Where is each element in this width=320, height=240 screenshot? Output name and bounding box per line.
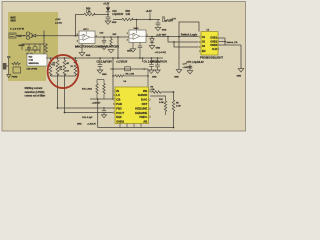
svg-text:SHDN: SHDN [19, 45, 25, 47]
transistor Q1 [26, 32, 32, 39]
bank bottom link [51, 75, 76, 77]
svg-text:1.8k: 1.8k [126, 14, 131, 16]
svg-text:CLK: CLK [212, 48, 217, 51]
annotation note [25, 87, 46, 98]
IC U4 [113, 87, 150, 124]
svg-text:+1.72/3.6V: +1.72/3.6V [116, 62, 128, 64]
wire to gnd [219, 45, 241, 69]
svg-text:1.0M: 1.0M [176, 106, 181, 108]
svg-text:V+ 3.6–5.5V IN: V+ 3.6–5.5V IN [10, 29, 24, 31]
svg-text:CB: CB [116, 98, 120, 102]
pin numbers U47 [77, 29, 97, 42]
wire U46 supply [136, 19, 138, 30]
svg-text:R41 1.0kΩ: R41 1.0kΩ [82, 88, 92, 91]
ground [105, 21, 117, 24]
wire from pin [150, 96, 165, 97]
svg-text:C41: 0.1μF: C41: 0.1μF [82, 116, 93, 119]
resistor R29 (vertical) [49, 57, 52, 76]
svg-text:selection (LPS02): selection (LPS02) [25, 91, 45, 94]
wire [132, 19, 160, 21]
svg-text:1.0μF/16V: 1.0μF/16V [112, 14, 123, 16]
capacitor C75 [187, 62, 205, 74]
svg-text:GND: GND [77, 124, 82, 126]
resistor R30 (vertical) [56, 57, 59, 75]
svg-text:+1.8/3.6V: +1.8/3.6V [92, 102, 101, 104]
diode D2 [106, 7, 110, 14]
wire lower link [90, 80, 114, 100]
svg-text:Switch_Clk: Switch_Clk [227, 41, 239, 44]
wire [94, 14, 108, 16]
capacitor C41 [102, 107, 106, 115]
zener D3 [150, 37, 154, 46]
svg-text:8660: 8660 [11, 21, 17, 23]
schematic frame [2, 2, 246, 132]
ground [155, 27, 167, 31]
svg-text:1: 1 [147, 34, 148, 36]
IC U5 [199, 32, 219, 55]
svg-text:R66: R66 [126, 11, 131, 13]
input filter block (khaki) [8, 12, 58, 81]
svg-text:MAX: MAX [11, 17, 17, 20]
resistor bank labels [52, 61, 72, 72]
wire down left [57, 74, 59, 108]
wire to comparator [44, 35, 79, 37]
ground small [77, 115, 107, 126]
resistor R47 [110, 33, 117, 47]
node VIN [17, 34, 25, 38]
svg-text:+2.5V REF: +2.5V REF [156, 34, 167, 36]
resistor R42 [103, 80, 105, 100]
svg-text:R6: 1.0M: R6: 1.0M [126, 74, 135, 76]
resistor R5 (vertical) [172, 92, 181, 128]
svg-text:OSB1: OSB1 [210, 37, 217, 40]
ground [149, 70, 155, 73]
svg-text:Shifting current: Shifting current [25, 87, 43, 90]
wire [43, 31, 45, 58]
wire [36, 35, 44, 37]
svg-text:GND: GND [102, 74, 107, 76]
mid supply bus [46, 57, 163, 59]
svg-text:EN: EN [202, 50, 206, 53]
op-amp U47 [79, 31, 95, 44]
svg-text:OSB2: OSB2 [210, 40, 217, 43]
node A [43, 35, 45, 37]
svg-text:GND: GND [237, 75, 242, 77]
callout box [27, 54, 47, 66]
page background [0, 0, 250, 133]
wire [8, 61, 10, 74]
highlight ellipse [48, 55, 79, 88]
svg-text:HED1/NE: HED1/NE [135, 106, 147, 110]
label C16 [112, 11, 123, 16]
svg-text:IN: IN [116, 89, 119, 93]
svg-text:+1.8 (+3.3V): +1.8 (+3.3V) [155, 52, 167, 54]
svg-text:PGND: PGND [12, 77, 18, 79]
svg-text:POUT: POUT [116, 111, 124, 115]
transistor Q2 [33, 44, 37, 53]
node REF [151, 36, 153, 38]
svg-text:GND: GND [156, 48, 161, 50]
svg-text:C2: 1.0μF/16V: C2: 1.0μF/16V [97, 62, 113, 64]
supply +3.3V flag [146, 11, 153, 20]
op-amp U46 [129, 30, 146, 43]
capacitor C40 [100, 32, 107, 45]
wire Switch_Clk [219, 38, 226, 45]
ground [97, 70, 107, 76]
svg-text:5: 5 [88, 29, 89, 31]
svg-text:comes out of filter: comes out of filter [25, 95, 46, 98]
svg-text:MBR0520L: MBR0520L [29, 63, 40, 65]
label supply row [183, 64, 192, 69]
wire stage link [95, 36, 129, 38]
wire down right [64, 74, 66, 112]
svg-text:3: 3 [77, 34, 78, 36]
capacitor C4 [149, 57, 154, 70]
svg-text:C39·LPS02: C39·LPS02 [27, 69, 39, 71]
svg-text:R4: R4 [71, 65, 73, 68]
wire op2 output [146, 36, 199, 38]
svg-text:1.0M: 1.0M [159, 102, 164, 104]
svg-text:1.8k: 1.8k [86, 11, 91, 13]
resistor R3 (vertical, khaki right edge) [45, 43, 48, 53]
supply +3.3V [103, 4, 110, 8]
svg-text:5: 5 [138, 28, 139, 30]
wire mesh in block [22, 44, 40, 53]
svg-text:RST: RST [142, 102, 148, 106]
wire to lower cluster [58, 107, 117, 109]
label C1 [162, 17, 173, 22]
svg-text:4k7: 4k7 [66, 62, 69, 65]
capacitor C74 [150, 57, 168, 78]
svg-text:AB: AB [143, 119, 147, 123]
resistor R4 [12, 62, 21, 65]
resistor R68 [84, 13, 95, 16]
capacitor C1 [156, 20, 161, 28]
diode D1 [32, 34, 36, 38]
svg-text:IN1: IN1 [143, 89, 148, 93]
svg-text:GND: GND [162, 30, 167, 32]
ground [7, 75, 18, 79]
svg-text:+1.8/3.3V: +1.8/3.3V [87, 124, 96, 126]
svg-text:GND: GND [152, 77, 157, 79]
top rail left [76, 15, 85, 36]
capacitor C16 [106, 15, 111, 22]
node B [107, 14, 109, 16]
wire to U5 pin2 [167, 36, 198, 42]
svg-text:3: 3 [127, 33, 128, 35]
wire [65, 112, 117, 114]
left edge connector [3, 63, 8, 70]
ground [149, 46, 160, 50]
svg-text:PAD: PAD [116, 102, 122, 106]
resistor R32 (vertical) [74, 57, 77, 76]
resistor R6 (above U4) [112, 74, 149, 77]
svg-text:+3.3V: +3.3V [146, 11, 153, 13]
switch logic boundary wire [179, 22, 196, 70]
IC bottom pin stubs [120, 124, 141, 128]
capacitor C5 [27, 44, 31, 52]
svg-text:GND: GND [112, 22, 117, 24]
pin numbers U46 [127, 28, 148, 41]
svg-text:+3.3V: +3.3V [55, 19, 61, 21]
wire [22, 43, 44, 45]
resistor R10 (vertical) [159, 97, 167, 115]
resistor R9 [150, 86, 174, 93]
svg-text:C74: 1.0μF/6.3V: C74: 1.0μF/6.3V [150, 60, 168, 63]
connector J1 [9, 33, 16, 38]
top rail right [113, 19, 122, 21]
ground (boundary) [174, 70, 182, 79]
svg-text:0.4Ω: 0.4Ω [29, 59, 34, 62]
svg-text:VIN: VIN [17, 34, 21, 38]
capacitor C44 [138, 43, 142, 59]
svg-text:Switch Logic: Switch Logic [181, 33, 198, 36]
svg-text:2: 2 [77, 40, 78, 42]
label R66 [126, 11, 131, 16]
ground (below U46) [127, 43, 136, 53]
resistor pair (vertical) R41 [96, 80, 98, 100]
capacitor C6 (lower-left) [7, 57, 11, 62]
svg-text:+3.3V: +3.3V [103, 4, 110, 6]
node [178, 36, 180, 38]
ground [101, 46, 114, 52]
svg-text:GND2: GND2 [116, 119, 124, 123]
label +3.6V (faint) [55, 19, 62, 24]
label R68 [86, 8, 91, 13]
wire to U5 pin3 [173, 41, 198, 47]
svg-text:HED2/NE: HED2/NE [135, 111, 147, 115]
resistor R31 (vertical) [63, 57, 66, 75]
svg-text:(+3.6V): (+3.6V) [55, 22, 62, 24]
svg-text:C75: 1.0μF/6.3V: C75: 1.0μF/6.3V [187, 62, 205, 64]
sub-block rect [13, 67, 21, 73]
node [103, 112, 105, 114]
svg-text:1.0μF/16V: 1.0μF/16V [162, 21, 173, 23]
node [75, 35, 77, 37]
svg-text:DAO: DAO [141, 98, 148, 102]
node [57, 107, 66, 113]
ground (op-amp) [79, 44, 91, 57]
wire into U5 [196, 22, 199, 32]
svg-text:PROMOS/BLIGHT: PROMOS/BLIGHT [200, 57, 224, 59]
bottom bus [97, 98, 174, 128]
wire drop to bus [117, 36, 119, 59]
svg-text:C16: C16 [112, 11, 117, 13]
svg-text:GND: GND [86, 55, 91, 57]
svg-text:LX: LX [116, 93, 120, 97]
svg-text:OSB3: OSB3 [210, 44, 217, 47]
block title text [11, 17, 17, 23]
svg-text:R68: R68 [86, 8, 91, 10]
svg-text:GND: GND [127, 51, 132, 53]
connector pads [27, 53, 33, 55]
svg-text:+1.7V: +1.7V [171, 18, 177, 20]
svg-text:SHPAR: SHPAR [138, 93, 148, 97]
svg-text:FB3: FB3 [116, 106, 122, 110]
capacitor C2 [98, 57, 103, 70]
svg-text:2: 2 [127, 39, 128, 41]
ferrite bead FB1 [110, 57, 148, 99]
resistor R66 [122, 18, 133, 21]
svg-text:GND: GND [174, 77, 179, 79]
ground (right) [237, 69, 244, 78]
wire [16, 35, 26, 37]
